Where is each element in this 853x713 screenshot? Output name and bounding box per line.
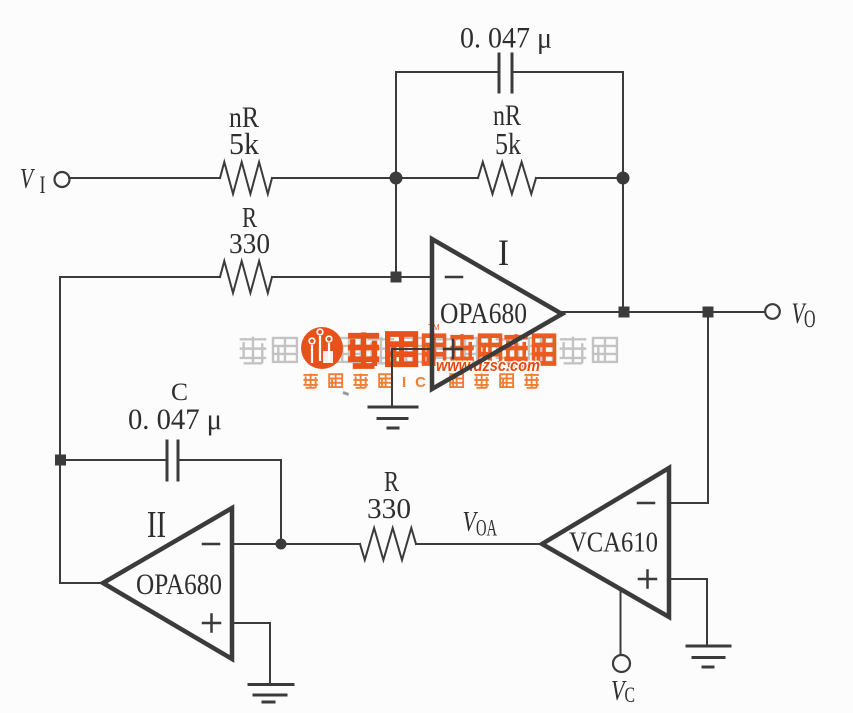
terminal VI — [55, 172, 70, 187]
watermark red text 电子市场网 — [424, 334, 555, 365]
wire node F up — [280, 460, 282, 544]
svg-text:C: C — [171, 379, 188, 406]
ground G3 — [249, 685, 293, 703]
wire U1 output — [562, 311, 765, 313]
watermark logo circle — [301, 327, 343, 369]
svg-text:O: O — [804, 306, 816, 333]
capacitor C2 0.047u plates — [166, 441, 169, 480]
wire U3 minus input — [669, 502, 708, 504]
capacitor C1 0.047u plates — [498, 54, 501, 92]
watermark orange line 全球最大IC采购网站 — [303, 373, 538, 387]
resistor R4 R 330 — [360, 528, 416, 560]
wire node E down — [707, 312, 709, 503]
svg-text:0. 047 μ: 0. 047 μ — [460, 22, 552, 55]
svg-text:I: I — [40, 172, 46, 199]
svg-text:C: C — [625, 682, 636, 707]
wire node A up — [395, 72, 397, 178]
svg-text:OA: OA — [476, 516, 497, 541]
wire VC stub — [620, 592, 622, 655]
junction node B — [618, 173, 629, 184]
op-amp U2 OPA680 triangle — [103, 508, 232, 659]
wire R3 to node C — [272, 276, 432, 278]
svg-text:OPA680: OPA680 — [440, 298, 527, 330]
ground G1 — [369, 407, 417, 428]
op-amp U2 plus pin — [203, 615, 220, 632]
junction node E — [704, 308, 713, 317]
resistor R2 nR 5k — [478, 162, 536, 194]
op-amp U1 minus pin — [446, 276, 462, 279]
op-amp U3 minus pin — [638, 502, 654, 505]
wire U2 plus input — [232, 622, 270, 624]
wire U1 plus input — [392, 348, 432, 350]
op-amp U3 plus pin — [639, 571, 656, 588]
op-amp U3 VCA610 triangle — [542, 468, 669, 617]
watermark red text 维库 — [348, 332, 415, 366]
left rail wire — [59, 277, 61, 583]
junction node D — [620, 308, 629, 317]
wire down to ground G1 — [391, 349, 393, 407]
svg-text:330: 330 — [229, 229, 270, 260]
op-amp U1 OPA680 triangle — [432, 239, 562, 389]
junction node G — [56, 456, 65, 465]
wire R4 to node F — [232, 543, 360, 545]
wire R1 to node A — [272, 177, 478, 179]
wire VI to R1 — [69, 177, 220, 179]
svg-text:330: 330 — [367, 494, 411, 525]
wire VOA from VCA610 — [416, 543, 544, 545]
terminal VC — [613, 655, 630, 672]
svg-text:5k: 5k — [495, 126, 521, 161]
junction node A — [391, 173, 402, 184]
junction node C — [392, 273, 401, 282]
wire capacitor C2 right side — [178, 459, 281, 461]
wire left rail to R3 — [60, 276, 220, 278]
wire down to ground G2 — [706, 579, 708, 645]
junction node F — [277, 540, 286, 549]
wire capacitor C2 left side — [60, 459, 167, 461]
wire U2 output — [60, 582, 105, 584]
wire U3 plus input — [669, 578, 707, 580]
ground G2 — [687, 646, 730, 667]
op-amp U1 plus pin — [444, 340, 462, 358]
watermark gray text 杭州维库信息技术有限公司 — [240, 337, 617, 364]
scan speck — [342, 391, 349, 396]
svg-text:II: II — [147, 504, 166, 546]
resistor R3 R 330 — [220, 261, 272, 293]
resistor R1 nR 5k — [220, 162, 272, 194]
svg-text:5k: 5k — [229, 126, 259, 161]
wire top left to capacitor C1 — [396, 71, 499, 73]
svg-text:OPA680: OPA680 — [136, 569, 222, 601]
terminal VO — [765, 304, 780, 319]
op-amp U2 minus pin — [203, 543, 219, 546]
svg-text:0. 047 μ: 0. 047 μ — [128, 403, 222, 436]
wire node B down to output — [622, 72, 624, 312]
wire R2 to node B — [536, 177, 623, 179]
wire down to ground G3 — [269, 623, 271, 683]
svg-text:VCA610: VCA610 — [569, 527, 658, 559]
wire node A down to node C — [395, 178, 397, 277]
wire capacitor C1 to right — [512, 71, 623, 73]
svg-text:I: I — [498, 233, 509, 274]
